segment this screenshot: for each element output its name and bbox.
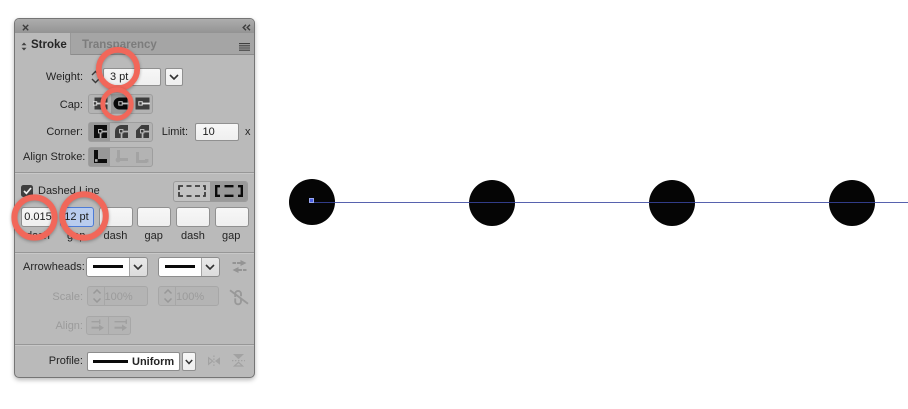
weight stepper <box>90 70 101 84</box>
align stroke button group <box>88 147 153 167</box>
cap round button (selected) <box>111 95 131 113</box>
dash field 3 <box>99 207 133 227</box>
separator 3 <box>15 344 254 345</box>
weight dropdown button <box>165 68 183 86</box>
arrowhead start combo <box>86 257 148 277</box>
gap field 2 value 12pt (focused) <box>60 207 94 227</box>
broken link icon (disabled) <box>229 288 249 306</box>
active tab Stroke <box>15 33 71 55</box>
dash gap labels <box>26 230 50 242</box>
flip along icon (disabled) <box>232 353 245 368</box>
dot 3 of dotted stroke <box>649 180 695 226</box>
Stroke panel <box>14 18 255 378</box>
gap field 4 <box>137 207 171 227</box>
align arrows group (disabled) <box>86 316 131 335</box>
title bar <box>15 19 254 34</box>
scale end spinner (disabled) <box>158 286 219 306</box>
Cap label <box>60 99 83 111</box>
corner round button <box>115 125 128 138</box>
flip across icon (disabled) <box>207 355 221 367</box>
dash preview adjust button <box>178 185 206 197</box>
separator 2 <box>15 252 254 253</box>
dash field 1 value 0.015 <box>21 207 55 227</box>
Dashed Line checkbox (checked) <box>21 185 33 197</box>
annotation circle: gap value <box>58 190 110 242</box>
dot 1 of dotted stroke <box>289 179 335 225</box>
align inside button (disabled) <box>115 150 128 163</box>
gap field 6 <box>215 207 249 227</box>
profile combo Uniform <box>87 352 180 371</box>
Align Stroke label <box>23 151 85 163</box>
collapse chevrons <box>242 24 251 31</box>
dot 4 of dotted stroke <box>829 180 875 226</box>
limit field 10 <box>195 123 239 141</box>
separator 1 <box>15 172 254 173</box>
Profile label <box>49 355 83 367</box>
anchor point (blue square) <box>309 198 314 203</box>
corner bevel button <box>136 125 149 138</box>
annotation circle: weight field <box>93 44 143 94</box>
panel menu icon <box>239 43 250 51</box>
dash preview group <box>173 181 248 202</box>
cap button group <box>88 94 153 114</box>
dash preview exact button (selected) <box>210 182 247 201</box>
dash field 5 <box>176 207 210 227</box>
Arrowheads label <box>23 261 85 273</box>
cap projecting button <box>135 97 150 110</box>
scale start spinner (disabled) <box>87 286 148 306</box>
x suffix <box>245 126 251 138</box>
wire: selected path (blue line) <box>311 202 908 204</box>
Weight label <box>46 71 83 83</box>
arrowhead end combo <box>158 257 220 277</box>
annotation circle: dash value <box>10 193 59 242</box>
swap arrowheads icon (disabled) <box>232 260 247 273</box>
profile dropdown button <box>182 352 196 371</box>
Corner label <box>46 126 83 138</box>
align outside button (disabled) <box>136 150 149 163</box>
Align label (disabled) <box>55 320 83 332</box>
tab cycle icon <box>21 42 27 51</box>
cap butt button <box>93 97 108 110</box>
annotation circle: round cap <box>98 85 136 123</box>
Limit label <box>162 126 188 138</box>
weight field 3pt <box>103 68 161 86</box>
align center button (selected) <box>89 148 110 166</box>
tab bar <box>15 33 254 55</box>
close X <box>22 24 30 32</box>
corner miter button (selected) <box>89 123 110 141</box>
dot 2 of dotted stroke <box>469 180 515 226</box>
corner button group <box>88 122 153 142</box>
Scale label (disabled) <box>52 291 83 303</box>
